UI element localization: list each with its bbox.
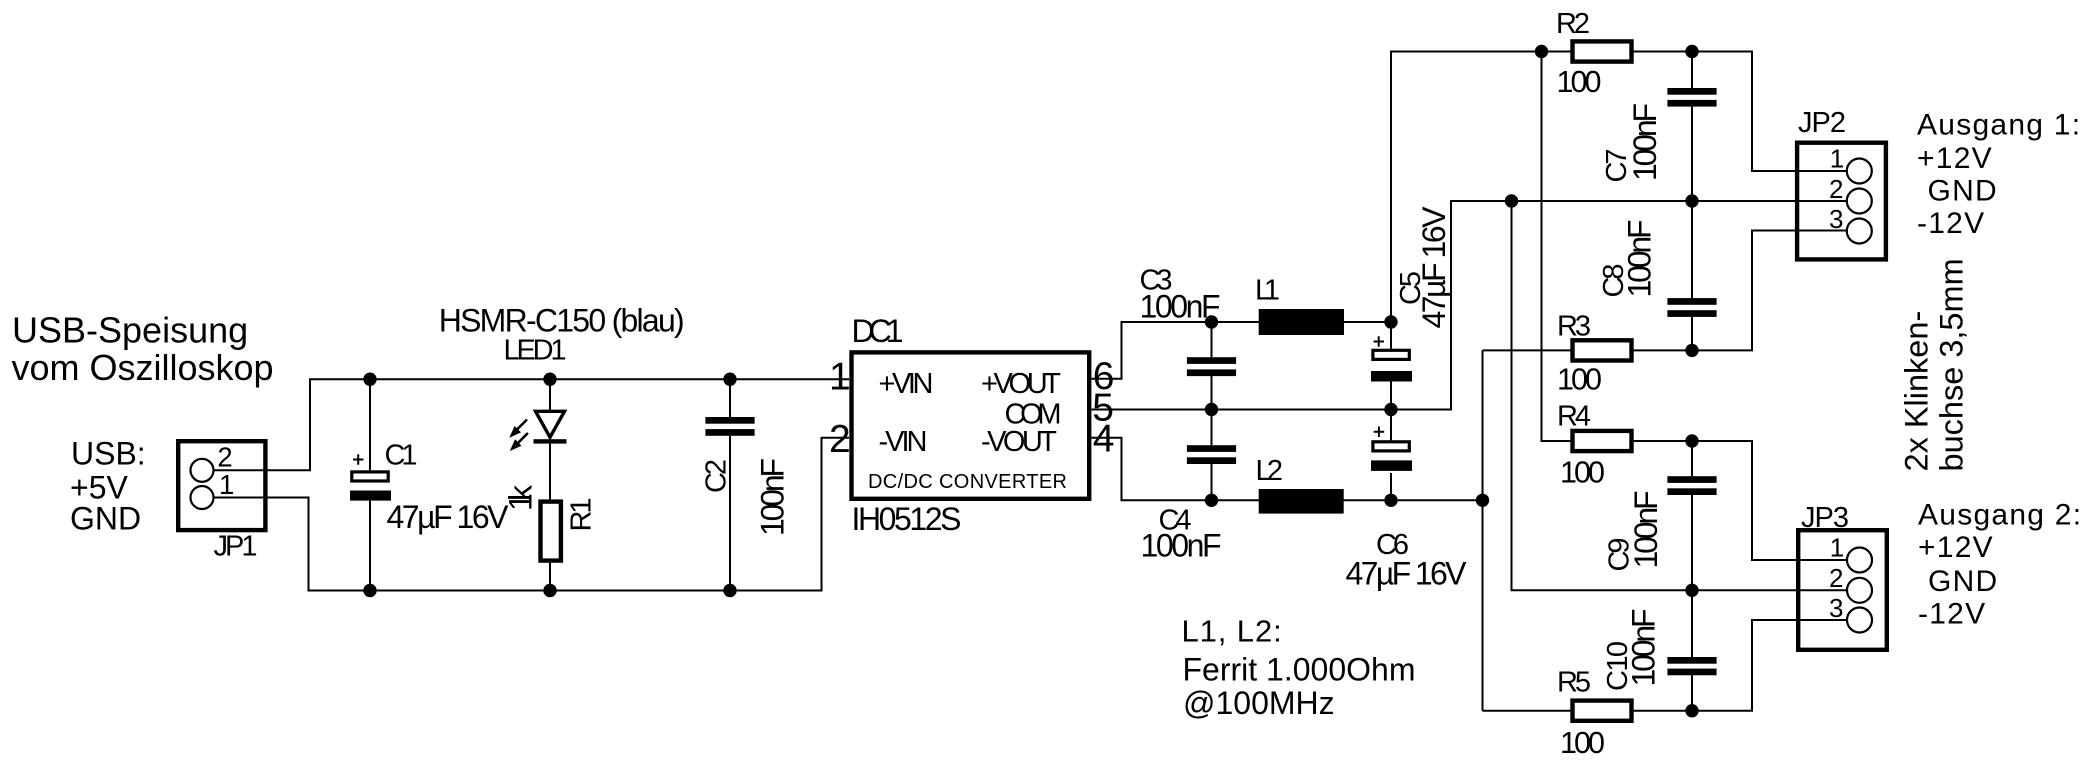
svg-text:DC/DC CONVERTER: DC/DC CONVERTER bbox=[868, 471, 1067, 493]
svg-text:JP1: JP1 bbox=[214, 531, 258, 563]
svg-text:LED1: LED1 bbox=[504, 335, 567, 367]
svg-text:C1: C1 bbox=[385, 440, 418, 472]
svg-text:R2: R2 bbox=[1556, 8, 1590, 40]
svg-text:+VIN: +VIN bbox=[879, 368, 934, 400]
svg-text:R4: R4 bbox=[1557, 401, 1591, 433]
svg-text:R1: R1 bbox=[566, 498, 598, 532]
svg-text:JP2: JP2 bbox=[1798, 107, 1846, 139]
svg-text:100: 100 bbox=[1560, 456, 1605, 490]
svg-text:GND: GND bbox=[70, 501, 141, 537]
svg-text:vom Oszilloskop: vom Oszilloskop bbox=[12, 347, 274, 388]
svg-text:1: 1 bbox=[219, 469, 234, 500]
svg-text:GND: GND bbox=[1928, 175, 1998, 208]
svg-text:100nF: 100nF bbox=[1626, 609, 1662, 687]
svg-text:USB:: USB: bbox=[71, 436, 146, 472]
svg-text:3: 3 bbox=[1829, 204, 1843, 234]
svg-text:2x Klinken-: 2x Klinken- bbox=[1899, 311, 1935, 472]
svg-text:Ausgang 2:: Ausgang 2: bbox=[1918, 499, 2082, 532]
svg-text:-VIN: -VIN bbox=[879, 426, 928, 458]
svg-text:R5: R5 bbox=[1557, 667, 1591, 699]
svg-text:GND: GND bbox=[1928, 565, 1998, 598]
svg-text:47µF 16V: 47µF 16V bbox=[387, 499, 510, 535]
svg-text:1: 1 bbox=[829, 356, 851, 399]
svg-text:R3: R3 bbox=[1557, 311, 1591, 343]
svg-text:buchse 3,5mm: buchse 3,5mm bbox=[1934, 258, 1970, 471]
svg-text:100nF: 100nF bbox=[1140, 289, 1221, 325]
svg-text:100: 100 bbox=[1560, 726, 1605, 760]
svg-text:HSMR-C150 (blau): HSMR-C150 (blau) bbox=[439, 302, 685, 338]
svg-text:Ferrit 1.000Ohm: Ferrit 1.000Ohm bbox=[1183, 652, 1416, 688]
svg-text:USB-Speisung: USB-Speisung bbox=[12, 310, 248, 351]
svg-text:1: 1 bbox=[1830, 533, 1844, 563]
svg-text:3: 3 bbox=[1829, 593, 1843, 623]
svg-text:47µF 16V: 47µF 16V bbox=[1346, 556, 1468, 592]
svg-text:L2: L2 bbox=[1256, 455, 1284, 487]
svg-text:C2: C2 bbox=[701, 459, 733, 493]
svg-text:L1: L1 bbox=[1255, 275, 1280, 307]
svg-text:2: 2 bbox=[1829, 174, 1843, 204]
svg-text:100: 100 bbox=[1557, 363, 1602, 397]
svg-text:4: 4 bbox=[1093, 417, 1115, 460]
svg-text:2: 2 bbox=[1829, 563, 1843, 593]
svg-text:2: 2 bbox=[829, 418, 851, 461]
svg-text:L1, L2:: L1, L2: bbox=[1182, 614, 1283, 649]
svg-text:100nF: 100nF bbox=[1627, 103, 1663, 181]
svg-text:Ausgang 1:: Ausgang 1: bbox=[1917, 109, 2081, 142]
svg-text:100nF: 100nF bbox=[1622, 220, 1658, 298]
svg-text:100nF: 100nF bbox=[1628, 491, 1664, 569]
svg-text:+12V: +12V bbox=[1917, 142, 1993, 175]
svg-text:-12V: -12V bbox=[1917, 207, 1985, 240]
svg-text:1: 1 bbox=[1830, 144, 1844, 174]
svg-text:IH0512S: IH0512S bbox=[852, 501, 962, 537]
svg-text:2: 2 bbox=[217, 442, 232, 473]
svg-text:100: 100 bbox=[1557, 65, 1602, 99]
svg-text:100nF: 100nF bbox=[1141, 528, 1222, 564]
svg-text:+12V: +12V bbox=[1918, 531, 1994, 564]
svg-text:47µF 16V: 47µF 16V bbox=[1416, 206, 1452, 329]
svg-text:1k: 1k bbox=[503, 484, 539, 511]
svg-text:-12V: -12V bbox=[1918, 598, 1986, 631]
svg-text:@100MHz: @100MHz bbox=[1183, 685, 1335, 721]
svg-text:DC1: DC1 bbox=[852, 313, 904, 349]
svg-text:100nF: 100nF bbox=[755, 458, 791, 536]
svg-text:-VOUT: -VOUT bbox=[981, 426, 1057, 458]
svg-text:+VOUT: +VOUT bbox=[981, 368, 1061, 400]
svg-text:JP3: JP3 bbox=[1801, 502, 1849, 534]
